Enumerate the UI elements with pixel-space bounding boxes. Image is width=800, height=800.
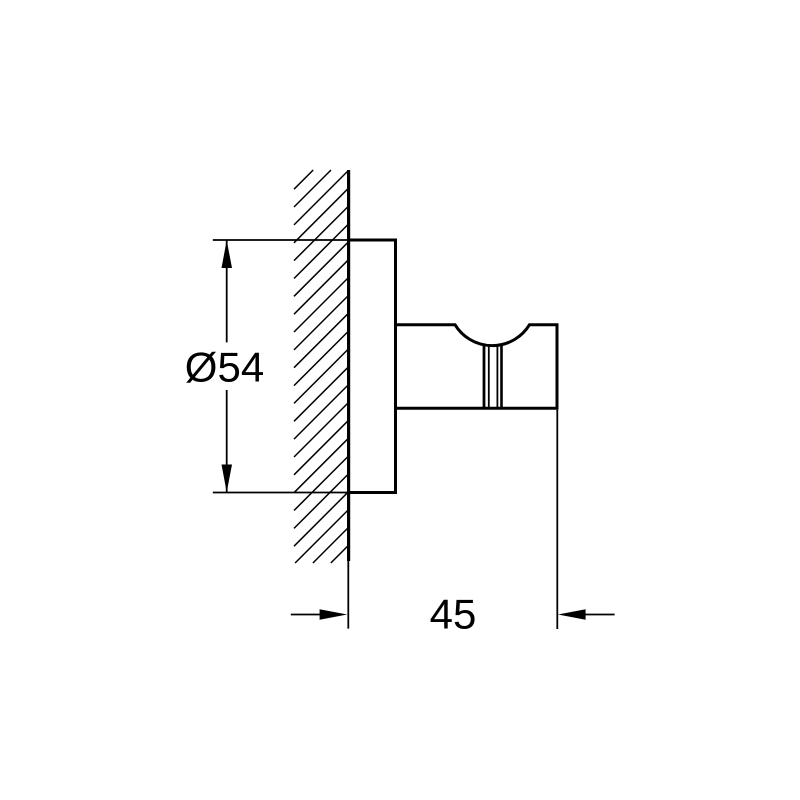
arrowhead left-pointing [558, 609, 586, 619]
wall surface line [347, 170, 350, 561]
extension line left (45) [347, 561, 349, 629]
hook neck line 1 [483, 345, 486, 410]
hook neck line 4 [500, 345, 503, 410]
dimension line 45 right tail [585, 614, 615, 616]
dimension line diameter upper segment [226, 240, 228, 342]
wall plate (side view) [348, 240, 396, 493]
extension line right (45) [556, 410, 558, 629]
arrowhead right-pointing [320, 609, 348, 619]
svg-text:Ø54: Ø54 [185, 344, 264, 391]
extension line bottom (diameter) [213, 492, 348, 494]
svg-text:45: 45 [430, 590, 477, 637]
wall hatching [294, 170, 349, 563]
dimension line 45 left tail [291, 614, 321, 616]
hook neck line 2 [488, 346, 490, 409]
hook body outline [396, 325, 558, 409]
arrowhead up [222, 240, 233, 268]
dimension line diameter lower segment [226, 390, 228, 492]
extension line top (diameter) [213, 239, 348, 241]
arrowhead down [222, 465, 233, 493]
hook neck line 3 [496, 346, 498, 409]
